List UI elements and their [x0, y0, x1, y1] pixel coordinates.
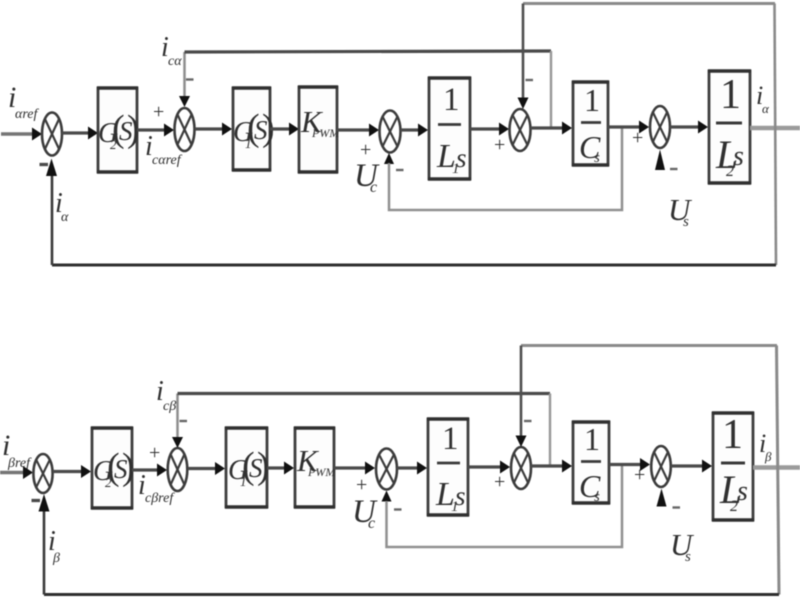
svg-text:s: s	[594, 489, 600, 505]
wire outer feedback bottom alpha	[52, 264, 776, 267]
label i_bref	[2, 429, 32, 471]
wire drop from top feedback into S4b	[516, 346, 527, 448]
svg-text:+: +	[494, 471, 505, 493]
wire output alpha	[750, 126, 800, 130]
svg-text:s: s	[685, 549, 691, 565]
svg-text:β: β	[52, 551, 60, 566]
svg-text:1: 1	[442, 421, 459, 457]
wire drop from top feedback into S4a	[518, 4, 529, 110]
block G2(S) alpha	[97, 88, 140, 172]
summing junction S3b	[376, 449, 397, 490]
block G1(S) beta	[225, 428, 270, 507]
wire Ka to S3a	[337, 124, 379, 137]
wire S4a to Csa	[531, 122, 573, 135]
wire i_cb feedback horizontal	[178, 392, 551, 395]
plus at S4b	[494, 471, 505, 493]
label i_cbref	[138, 470, 175, 506]
wire S2b to G1b	[188, 462, 225, 475]
svg-text:U: U	[668, 192, 693, 227]
wire input alpha	[1, 128, 42, 141]
wire S1b to G2b	[53, 465, 91, 478]
wire input beta	[0, 466, 33, 479]
label i_a feedback	[55, 188, 69, 225]
svg-text:PWM: PWM	[307, 465, 336, 479]
minus above S2a	[186, 78, 194, 80]
label i_ca	[161, 32, 182, 69]
summing junction S1a	[42, 113, 62, 156]
summing junction S1b	[33, 454, 52, 493]
label i_cb	[156, 376, 176, 414]
wire L1b to S4b	[468, 461, 510, 474]
wire Kb to S3b	[334, 462, 375, 475]
block 1/Cs alpha	[572, 82, 609, 166]
label i_caref	[145, 131, 183, 168]
svg-text:cα: cα	[168, 54, 182, 69]
label U_s beta	[670, 527, 695, 565]
label U_c beta	[352, 494, 378, 532]
block G2(S) beta	[91, 428, 135, 508]
plus at S2b	[149, 442, 160, 464]
svg-text:+: +	[153, 101, 164, 123]
block G1(S) alpha	[232, 88, 275, 170]
wire U_c feedback beta	[387, 464, 623, 547]
wire outer feedback left beta	[39, 494, 50, 595]
svg-text:1: 1	[720, 72, 741, 118]
wire G1a to Ka	[270, 123, 299, 136]
svg-text:α: α	[61, 210, 69, 225]
arrow U_s into S5b	[657, 489, 667, 507]
minus at S3a	[396, 169, 404, 171]
block K_PWM beta	[294, 428, 336, 507]
summing junction S4b	[511, 447, 531, 489]
wire S2a to G1a	[195, 123, 232, 136]
summing junction S3a	[380, 111, 401, 153]
minus at S5a	[670, 168, 678, 170]
svg-text:s: s	[456, 143, 467, 173]
svg-text:cαref: cαref	[152, 153, 183, 168]
summing junction S4a	[510, 109, 531, 151]
plus at S3a	[360, 139, 371, 161]
svg-text:s: s	[455, 481, 466, 511]
plus at S4a	[494, 134, 505, 156]
minus at S5b	[673, 506, 681, 508]
wire right vertical alpha	[775, 4, 777, 266]
wire S3a to L1a	[401, 124, 429, 137]
minus above S4b	[524, 420, 532, 422]
svg-text:cβ: cβ	[163, 399, 176, 414]
wire S4b to Csb	[531, 460, 572, 473]
wire G2b to S2b	[132, 464, 167, 477]
svg-text:s: s	[594, 150, 600, 166]
arrow U_s into S5a	[655, 150, 665, 171]
svg-text:+: +	[356, 474, 367, 496]
wire i_cb drop into S2b	[172, 394, 183, 449]
svg-text:PWM: PWM	[311, 126, 340, 140]
wire right vertical beta	[777, 346, 780, 595]
plus at S5a	[632, 127, 643, 149]
wire L1a to S4a	[470, 123, 509, 136]
label i_b feedback	[48, 526, 60, 566]
svg-text:+: +	[494, 134, 505, 156]
wire top feedback beta	[521, 344, 777, 347]
wire G2a to S2a	[137, 124, 174, 137]
wire top feedback alpha	[523, 2, 775, 5]
wire i_ca feedback horizontal	[185, 51, 552, 52]
wire Csa to S5a	[608, 121, 649, 134]
wire S5b to L2b	[671, 460, 712, 473]
block 1/L2s alpha	[708, 71, 751, 183]
wire output beta	[753, 465, 800, 470]
svg-text:+: +	[634, 464, 645, 486]
svg-text:βref: βref	[7, 456, 32, 471]
svg-text:β: β	[764, 449, 772, 464]
svg-text:+: +	[632, 127, 643, 149]
minus at S1a	[40, 163, 49, 166]
minus at S3b	[394, 508, 402, 510]
svg-text:1: 1	[443, 82, 460, 118]
svg-text:+: +	[149, 442, 160, 464]
svg-text:): )	[257, 445, 270, 487]
summing junction S5a	[650, 106, 670, 148]
svg-text:U: U	[670, 527, 695, 562]
plus at S2a	[153, 101, 164, 123]
wire i_ca drop into S2a	[179, 52, 190, 107]
summing junction S5b	[651, 446, 671, 487]
svg-text:c: c	[370, 179, 377, 196]
minus above S2b	[180, 420, 188, 422]
svg-text:s: s	[683, 214, 689, 230]
label i_b output	[759, 429, 772, 464]
wire U_c feedback alpha	[389, 126, 622, 210]
arrow U_c into S3a	[384, 153, 394, 164]
label U_c alpha	[354, 158, 380, 196]
wire G1b to Kb	[267, 462, 294, 475]
svg-text:cβref: cβref	[145, 491, 175, 506]
svg-text:): )	[122, 446, 135, 488]
svg-text:α: α	[762, 101, 770, 116]
label i_a output	[756, 81, 770, 116]
svg-text:αref: αref	[15, 107, 39, 122]
svg-text:s: s	[737, 476, 748, 507]
minus above S4a	[526, 79, 534, 81]
arrow U_c into S3b	[382, 491, 392, 502]
block K_PWM alpha	[298, 87, 340, 172]
block 1/L2s beta	[712, 412, 754, 520]
svg-text:c: c	[368, 515, 375, 532]
wire Csb to S5b	[609, 458, 650, 471]
summing junction S2a	[175, 108, 195, 151]
block 1/L1s beta	[427, 419, 469, 515]
wire i_ca tap vertical	[550, 51, 552, 128]
label i_aref	[8, 81, 39, 122]
minus at S1b	[32, 499, 41, 502]
svg-text:1: 1	[584, 82, 600, 118]
wire outer feedback left alpha	[46, 159, 57, 266]
label U_s alpha	[668, 192, 693, 230]
block 1/Cs beta	[572, 421, 610, 505]
plus at S3b	[356, 474, 367, 496]
svg-text:s: s	[733, 141, 744, 172]
wire outer feedback bottom beta	[44, 593, 779, 596]
block 1/L1s alpha	[428, 78, 471, 179]
wire i_cb tap vertical	[549, 394, 551, 467]
wire S3b to L1b	[397, 462, 427, 475]
summing junction S2b	[168, 448, 188, 491]
svg-text:1: 1	[722, 412, 743, 458]
wire S1a to G2a	[62, 127, 98, 140]
wire S5a to L2a	[670, 121, 708, 134]
svg-text:1: 1	[584, 421, 600, 457]
plus at S5b	[634, 464, 645, 486]
